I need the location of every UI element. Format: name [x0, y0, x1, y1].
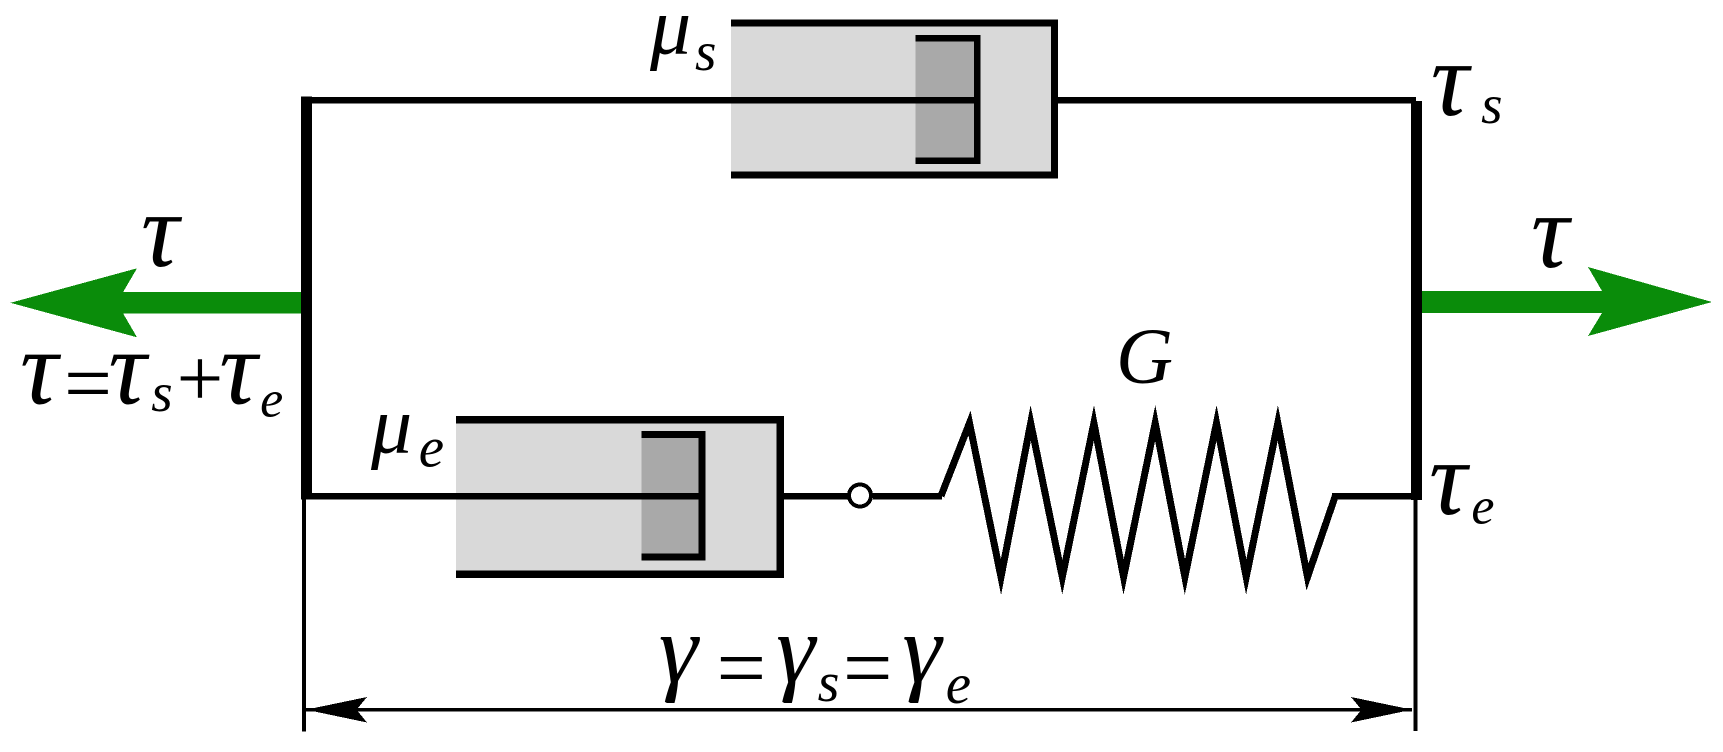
dashpot U2 (mu_e) cylinder body — [456, 420, 780, 575]
wire: node circle to spring — [873, 493, 942, 500]
right plate bar — [1411, 101, 1422, 500]
dimension arrowhead right — [1351, 697, 1412, 723]
wire: top branch rod (left bar to piston) — [301, 97, 977, 104]
svg-text:e: e — [946, 653, 971, 716]
dimension extension line left — [302, 499, 306, 732]
svg-text:τ: τ — [1431, 21, 1473, 138]
svg-text:τ: τ — [1429, 420, 1471, 537]
spring G zigzag — [941, 423, 1336, 577]
svg-text:s: s — [151, 362, 172, 423]
svg-text:e: e — [1471, 479, 1494, 536]
dimension arrow line — [306, 708, 1412, 712]
force arrow left (green) — [11, 268, 302, 337]
node joint circle — [849, 485, 871, 507]
dashpot U2 piston — [642, 435, 703, 558]
wire: top branch (cylinder to right bar) — [1055, 97, 1417, 104]
dashpot U1 (mu_s) cylinder body — [731, 23, 1055, 175]
left plate bar — [301, 97, 312, 499]
label mu_e — [370, 380, 444, 480]
dimension arrowhead left — [306, 697, 367, 723]
svg-text:e: e — [419, 417, 444, 480]
svg-text:γ: γ — [659, 595, 701, 704]
svg-text:μ: μ — [370, 380, 412, 471]
svg-text:G: G — [1116, 314, 1173, 401]
force arrow right (green) — [1422, 267, 1712, 336]
wire: spring to right bar — [1332, 493, 1416, 500]
svg-text:=: = — [711, 620, 770, 717]
svg-text:=: = — [59, 337, 116, 431]
label mu_s — [649, 0, 716, 82]
label tau_e (bottom right) — [1429, 420, 1494, 537]
svg-text:μ: μ — [649, 0, 691, 72]
svg-text:τ: τ — [20, 310, 62, 427]
svg-text:τ: τ — [141, 172, 183, 289]
svg-text:γ: γ — [776, 595, 818, 704]
svg-text:s: s — [1481, 74, 1502, 135]
svg-text:τ: τ — [1531, 173, 1573, 290]
svg-text:τ: τ — [219, 310, 261, 427]
dimension extension line right — [1414, 500, 1418, 731]
label tau_s (top right) — [1431, 21, 1503, 138]
svg-text:τ: τ — [108, 310, 150, 427]
dashpot U1 piston — [916, 38, 978, 161]
label equation gamma = gamma_s = gamma_e — [659, 595, 971, 717]
svg-text:=: = — [837, 620, 896, 717]
svg-text:γ: γ — [902, 595, 944, 704]
label equation tau = tau_s + tau_e — [20, 310, 283, 431]
wire: bottom branch rod (left bar to piston) — [301, 493, 702, 500]
wire: cylinder to node circle — [780, 493, 848, 500]
svg-text:e: e — [260, 372, 283, 429]
svg-text:s: s — [818, 652, 840, 714]
svg-text:s: s — [695, 21, 716, 82]
